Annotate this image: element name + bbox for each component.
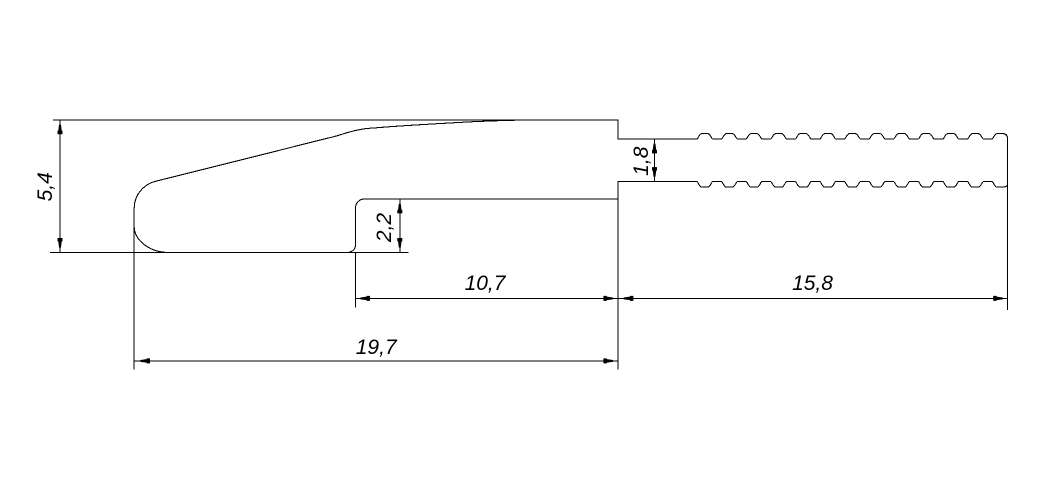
dimension line 19,7 bbox=[134, 360, 618, 362]
arrowheads 19,7 bbox=[140, 358, 150, 363]
arrowheads 5,4 bbox=[58, 125, 63, 135]
arrowheads 10,7 bbox=[360, 296, 370, 301]
svg-text:15,8: 15,8 bbox=[792, 272, 833, 295]
dimension line 15,8 bbox=[618, 297, 1008, 299]
profile outline of gasket section bbox=[134, 120, 1008, 253]
svg-text:1,8: 1,8 bbox=[630, 146, 653, 176]
arrowheads 15,8 bbox=[624, 296, 634, 301]
extension line bottom (5,4 / 2,2) bbox=[50, 251, 409, 253]
svg-text:19,7: 19,7 bbox=[356, 336, 398, 359]
arrowheads 2,2 bbox=[397, 204, 402, 214]
dimension line 1,8 bbox=[654, 139, 656, 182]
svg-text:5,4: 5,4 bbox=[34, 172, 57, 201]
extension line top (5,4) bbox=[53, 119, 618, 121]
dimension line 2,2 bbox=[399, 199, 401, 252]
dimension line 10,7 bbox=[356, 297, 618, 299]
svg-text:10,7: 10,7 bbox=[465, 272, 507, 295]
extension line at x=134 (19,7 left) bbox=[133, 226, 135, 370]
extension line at x=618 (shared) bbox=[617, 199, 619, 370]
extension line at x=355.6 (10,7 left) bbox=[355, 252, 357, 307]
extension line at x=1007.6 (15,8 right) bbox=[1007, 184, 1009, 310]
svg-text:2,2: 2,2 bbox=[373, 213, 396, 244]
dimension line 5,4 bbox=[59, 120, 61, 253]
arrowheads 1,8 bbox=[652, 144, 657, 154]
